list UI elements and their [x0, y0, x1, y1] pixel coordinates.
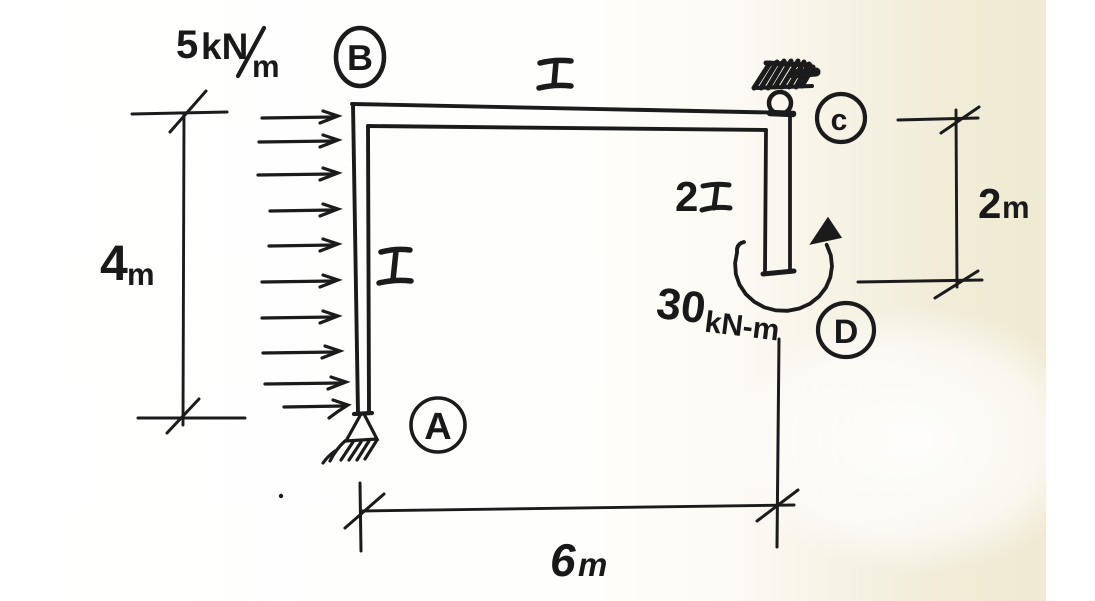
label 2m [978, 180, 1030, 227]
svg-text:m: m [1002, 190, 1030, 225]
svg-text:D: D [834, 313, 859, 351]
member AB left column (I) [353, 104, 369, 414]
svg-text:4: 4 [100, 235, 128, 291]
node circle C [817, 94, 865, 142]
svg-text:30: 30 [654, 279, 709, 334]
svg-text:m: m [252, 49, 280, 84]
svg-text:2: 2 [675, 173, 698, 220]
svg-text:A: A [424, 406, 451, 448]
node circle D [818, 303, 874, 357]
svg-text:m: m [578, 546, 607, 583]
svg-text:5: 5 [176, 23, 198, 67]
svg-text:6: 6 [550, 534, 576, 586]
dimension line 4m vertical [183, 113, 184, 425]
load arrow 6 [262, 275, 338, 287]
load arrow 5 [269, 239, 338, 251]
load arrow 4 [270, 204, 338, 216]
dimension 4m top tick [132, 91, 227, 132]
svg-text:2: 2 [978, 180, 1001, 227]
moment arrow 30kN-m at D [735, 219, 840, 311]
dimension 6m left tick [345, 483, 384, 551]
load arrow 8 [263, 346, 340, 358]
dimension 6m right tick and projection line from D [757, 339, 798, 547]
dimension line 2m vertical [956, 110, 957, 287]
load arrow 2 [259, 135, 338, 147]
distributed load label 5kN/m [176, 23, 280, 84]
dimension 4m bottom tick [138, 399, 245, 433]
label I on left column [379, 249, 411, 283]
member BC beam (I) [352, 104, 794, 130]
load arrow 7 [262, 311, 338, 323]
load arrow 3 [258, 168, 338, 180]
label 4m [100, 235, 155, 292]
load arrow 10 [284, 400, 348, 418]
load arrow 9 [265, 377, 346, 389]
label 6m [550, 534, 607, 586]
label I on beam [539, 60, 571, 88]
label 2I on right column [675, 173, 730, 220]
load arrow 1 [262, 111, 338, 123]
node circle A [411, 398, 465, 452]
svg-text:B: B [347, 37, 373, 78]
dimension 2m bottom tick [858, 271, 982, 298]
node circle B [336, 28, 384, 86]
svg-text:c: c [831, 104, 848, 137]
stray ink dot [279, 494, 283, 498]
dimension line 6m horizontal [361, 505, 794, 511]
roller support C wheel [769, 92, 791, 114]
svg-text:m: m [127, 257, 155, 292]
label 30kN-m [653, 279, 784, 348]
dimension 2m top tick [898, 107, 979, 133]
roller support C hatched pad [754, 61, 816, 88]
member CD right column (2I) [763, 114, 794, 274]
pin support A [323, 413, 377, 463]
svg-text:kN: kN [201, 26, 248, 67]
